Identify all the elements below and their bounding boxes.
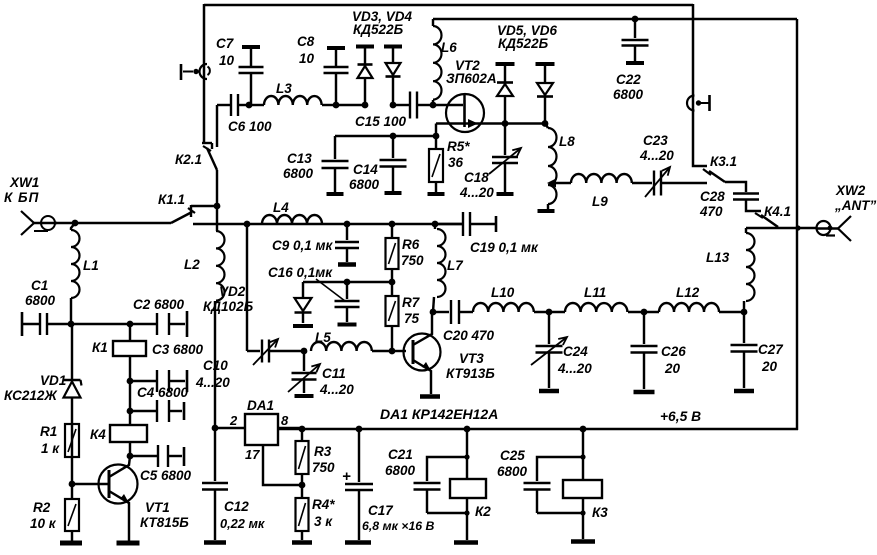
label pin 8 <box>281 413 289 428</box>
label R7 <box>402 295 421 326</box>
label DA1 <box>247 398 274 413</box>
svg-text:75: 75 <box>404 311 420 326</box>
svg-text:C7: C7 <box>216 36 235 51</box>
label К2 <box>475 504 491 519</box>
switch K1.1 blade <box>171 208 195 223</box>
node: C27/L13 tap <box>741 309 748 316</box>
ground: C11 <box>295 394 314 398</box>
label C8 <box>297 34 315 66</box>
svg-text:С19 0,1 мк: С19 0,1 мк <box>470 240 539 255</box>
capacitor C18 trimmer <box>489 123 521 192</box>
label C12 <box>220 499 265 531</box>
svg-text:„ANT”: „ANT” <box>834 198 876 213</box>
svg-text:750: 750 <box>312 460 335 475</box>
label VD5 VD6 <box>497 23 558 51</box>
node: R3/R4 junction <box>299 482 306 489</box>
wire: VT2 source rail <box>436 122 545 124</box>
svg-text:1 к: 1 к <box>41 441 60 456</box>
wire: L11 to L12 <box>628 311 659 313</box>
svg-text:750: 750 <box>401 253 424 268</box>
svg-text:R6: R6 <box>402 237 420 252</box>
zener VD1 <box>64 324 82 424</box>
capacitor C23 trimmer <box>645 167 670 197</box>
wire: R2 to ground <box>71 531 73 541</box>
ground: C12 <box>204 540 226 545</box>
label pin 2 <box>229 413 238 428</box>
node: C14 tap <box>390 133 397 140</box>
svg-text:L13: L13 <box>706 250 730 265</box>
svg-text:С28: С28 <box>700 189 725 204</box>
inductor L6 <box>433 19 442 105</box>
label VD2 <box>203 284 254 314</box>
svg-text:10: 10 <box>219 53 235 68</box>
svg-text:С26: С26 <box>661 344 686 359</box>
node: K-switch junction <box>214 203 221 210</box>
svg-text:C2 6800: C2 6800 <box>133 297 185 312</box>
node: VT1 base junction <box>69 481 76 488</box>
svg-text:L1: L1 <box>83 258 99 273</box>
svg-text:6800: 6800 <box>25 293 56 308</box>
label К3.1 <box>710 154 737 169</box>
wire: screen-box left rail (to K2.1 contact) <box>203 4 206 143</box>
transistor VT2 source arrow <box>468 119 478 128</box>
label C5 6800 <box>140 468 192 483</box>
label XW1 <box>9 175 39 190</box>
svg-text:10: 10 <box>299 51 315 66</box>
wire: VD1-R1-R2 string <box>71 457 73 499</box>
switch K1.1 contact bracket <box>191 205 217 217</box>
svg-text:К1: К1 <box>92 340 108 355</box>
wire: +6.5V top feed (L6 top to right drop) <box>433 18 797 20</box>
wire: C13/C14 rail <box>335 135 436 137</box>
svg-text:VT1: VT1 <box>145 500 170 515</box>
capacitor C10 trimmer <box>247 339 304 365</box>
svg-text:+6,5 В: +6,5 В <box>660 409 701 424</box>
node: L7/C19 tap <box>432 221 439 228</box>
svg-text:КД522Б: КД522Б <box>353 22 404 37</box>
node: K1 string top <box>127 321 134 328</box>
wire: base feed <box>392 350 406 352</box>
diode VD6 <box>536 64 555 123</box>
svg-text:С24: С24 <box>563 344 588 359</box>
node: VD6/L8 tap <box>542 120 549 127</box>
wire: C21 bottom bracket <box>427 512 467 514</box>
connector XW2 plug fork <box>817 216 851 241</box>
label L9 <box>592 194 608 209</box>
svg-text:36: 36 <box>448 155 464 170</box>
label VD1 <box>40 373 66 388</box>
label L2 <box>184 257 200 272</box>
label C27 <box>758 342 784 374</box>
capacitor C9 <box>335 224 359 265</box>
label КС212Ж <box>4 388 58 403</box>
transistor VT2 gate <box>433 104 463 106</box>
svg-text:КС212Ж: КС212Ж <box>4 388 58 403</box>
label C3 6800 <box>152 342 204 357</box>
wire: L12 to L13 <box>719 311 744 313</box>
node: VT2 gate node <box>430 102 437 109</box>
svg-text:L11: L11 <box>584 285 606 300</box>
wire: C28 to K4.1 contact <box>746 200 761 211</box>
label pin 17 <box>245 447 260 462</box>
node: K3 bottom tie <box>580 510 585 515</box>
node: C5/collector tap <box>127 453 134 460</box>
capacitor C3 end bar <box>186 370 189 392</box>
svg-text:С11: С11 <box>322 366 346 381</box>
label R5 <box>447 139 470 170</box>
label C14 <box>349 162 380 192</box>
svg-text:L2: L2 <box>184 257 200 272</box>
switch K2.1 contact hook <box>202 143 212 149</box>
label К4.1 <box>764 204 791 219</box>
wire: pin17 lead <box>263 445 299 485</box>
capacitor C28 <box>733 194 759 200</box>
capacitor C2 <box>157 313 185 335</box>
svg-text:С21: С21 <box>388 447 413 462</box>
label R2 <box>30 500 57 531</box>
svg-text:К2: К2 <box>475 504 491 519</box>
svg-text:20: 20 <box>761 359 778 374</box>
resistor R2 body <box>65 499 79 531</box>
svg-text:L10: L10 <box>491 285 515 300</box>
label C6 100 <box>228 119 272 134</box>
svg-text:К3: К3 <box>592 505 608 520</box>
label C18 <box>459 170 494 200</box>
inductor L8 <box>545 123 557 209</box>
label C20 470 <box>443 328 495 343</box>
wire: K3 feed <box>582 429 584 480</box>
capacitor C2 end bar <box>186 311 189 337</box>
label C19 <box>470 240 539 255</box>
wire: K2.1 to C6 (riser) <box>216 170 218 206</box>
capacitor C17 <box>345 429 373 540</box>
label C2 6800 <box>133 297 185 312</box>
wire: L10 to L11 <box>534 311 565 313</box>
label XW2 <box>835 183 866 198</box>
inductor L9 feed arrow <box>547 179 571 188</box>
wire: L9 to C23 <box>632 182 652 184</box>
svg-text:С17: С17 <box>368 503 394 518</box>
svg-text:ЗП602А: ЗП602А <box>446 71 497 86</box>
inductor L5 <box>311 342 392 351</box>
svg-text:VD2: VD2 <box>219 284 246 299</box>
wire: C25 bottom bracket <box>537 512 583 514</box>
wire: +6.5V right drop <box>796 19 798 430</box>
ground: C24 <box>539 389 559 394</box>
ground: VD2 <box>293 324 313 328</box>
svg-text:К4.1: К4.1 <box>764 204 791 219</box>
svg-text:C3 6800: C3 6800 <box>152 342 204 357</box>
svg-text:6,8 мк ×16 В: 6,8 мк ×16 В <box>362 519 435 533</box>
svg-text:L7: L7 <box>447 258 464 273</box>
wire: C10 drop <box>246 224 248 351</box>
label R6 <box>401 237 424 268</box>
svg-text:XW2: XW2 <box>835 183 866 198</box>
svg-text:С23: С23 <box>643 133 668 148</box>
wire: C25 top bracket <box>537 457 583 481</box>
svg-text:20: 20 <box>664 361 681 376</box>
svg-text:С9 0,1 мк: С9 0,1 мк <box>272 238 334 253</box>
svg-text:R3: R3 <box>314 444 332 459</box>
capacitor C27 <box>731 312 758 388</box>
wire: screen-box right rail (to K3.1 contact) <box>693 4 707 166</box>
label C17 <box>362 503 435 533</box>
svg-text:R7: R7 <box>402 295 421 310</box>
resistor R3 body <box>296 429 309 485</box>
wire: screen-box top rail <box>204 4 693 7</box>
svg-text:6800: 6800 <box>349 177 380 192</box>
svg-text:К4: К4 <box>90 427 106 442</box>
svg-text:C1: C1 <box>31 278 48 293</box>
svg-text:R2: R2 <box>33 500 51 515</box>
connector: screen-box input tap <box>181 64 210 80</box>
label L4 <box>273 200 289 215</box>
svg-text:R1: R1 <box>40 424 57 439</box>
svg-text:С10: С10 <box>203 358 228 373</box>
label R3 <box>312 444 335 475</box>
svg-text:L5: L5 <box>315 330 331 345</box>
node: C1/L1/VD1 junction <box>68 321 75 328</box>
label C4 6800 <box>137 385 189 400</box>
connector XW2 socket circle <box>817 221 836 236</box>
node: VT3 collector node <box>430 309 437 316</box>
label C13 <box>283 151 314 181</box>
label L12 <box>676 285 700 300</box>
transistor VT1 base bar <box>108 470 111 498</box>
label R1 <box>40 424 60 456</box>
ground: R4 <box>292 540 312 545</box>
node: K2 rail tap <box>464 426 471 433</box>
label К3 <box>592 505 608 520</box>
label C22 <box>613 72 644 102</box>
wire: +6.5V bottom rail <box>278 428 798 430</box>
node: DA1 input tap <box>212 425 219 432</box>
ground: L8 <box>538 209 555 213</box>
svg-text:DA1: DA1 <box>247 398 274 413</box>
svg-text:К3.1: К3.1 <box>710 154 737 169</box>
node: C7 tap <box>246 102 253 109</box>
transistor VT1 emitter <box>109 491 129 541</box>
svg-text:С22: С22 <box>616 72 641 87</box>
svg-text:8: 8 <box>281 413 289 428</box>
transistor VT2 channel <box>463 94 466 127</box>
label ANT <box>834 198 876 213</box>
svg-text:3 к: 3 к <box>314 514 333 529</box>
svg-text:С14: С14 <box>353 162 378 177</box>
svg-text:К1.1: К1.1 <box>158 192 185 207</box>
wire: K3.1 to C28 <box>725 182 746 192</box>
node: C9 tap <box>344 221 351 228</box>
capacitor C19 end bar <box>495 216 498 232</box>
capacitor C4 end bar <box>183 402 186 420</box>
wire: C6 riser <box>216 105 218 147</box>
node: C22 tap on top feed <box>632 16 639 23</box>
wire: K3 ground lead <box>582 498 584 539</box>
node: R3 rail tap <box>299 426 306 433</box>
wire: bias rail <box>303 281 392 283</box>
label C26 <box>661 344 686 376</box>
svg-text:4...20: 4...20 <box>639 148 674 163</box>
capacitor C8 <box>324 48 349 105</box>
node: C26 tap <box>641 309 648 316</box>
capacitor C5 end bar <box>183 447 186 466</box>
svg-text:С12: С12 <box>224 499 249 514</box>
label VT1 <box>140 500 189 530</box>
svg-text:4...20: 4...20 <box>459 185 494 200</box>
label C21 <box>385 447 416 478</box>
label L11 <box>584 285 606 300</box>
capacitor C22 <box>622 19 649 61</box>
label C15 100 <box>355 114 407 129</box>
relay coil K3 <box>563 480 602 498</box>
relay coil K2 <box>450 479 486 498</box>
svg-text:КТ913Б: КТ913Б <box>446 366 495 381</box>
ground: C16 <box>338 323 357 327</box>
capacitor C4 <box>130 400 182 422</box>
node: C10 branch <box>244 221 251 228</box>
label L7 <box>447 258 464 273</box>
label C24 <box>557 344 592 376</box>
svg-text:L9: L9 <box>592 194 608 209</box>
node: C4 tap <box>127 408 134 415</box>
capacitor C13 <box>322 136 349 192</box>
ground: C18 <box>497 192 514 196</box>
switch K4.1 blade <box>755 213 778 227</box>
wire: base wire <box>72 483 109 485</box>
svg-text:10 к: 10 к <box>30 516 57 531</box>
connector: screen-box output tap <box>687 95 709 111</box>
node: VD3 tap <box>362 102 369 109</box>
IC DA1 box <box>245 414 278 445</box>
capacitor C12 <box>202 428 228 540</box>
label VT3 <box>446 351 495 381</box>
node: K2 bottom tie <box>464 510 469 515</box>
capacitor C24 trimmer <box>531 312 567 388</box>
capacitor C26 <box>631 312 658 389</box>
node: C21 top tie <box>464 454 469 459</box>
transistor VT3 base bar <box>412 340 415 364</box>
capacitor C16 <box>335 282 360 322</box>
svg-text:17: 17 <box>245 447 260 462</box>
label C9 <box>272 238 334 253</box>
svg-text:4...20: 4...20 <box>557 361 592 376</box>
label К2.1 <box>175 152 202 167</box>
wire: main line K1.1 to C19 <box>193 223 463 225</box>
label C28 <box>699 189 725 219</box>
label C23 <box>639 133 674 163</box>
connector XW1 socket circle <box>34 216 55 231</box>
node: K3 rail tap <box>580 426 587 433</box>
label К БП <box>4 190 39 205</box>
ground: VT1 emitter <box>117 541 140 546</box>
wire: source rail to R5 <box>435 124 437 137</box>
transistor VT1 circle <box>99 465 138 504</box>
transistor VT3 collector <box>413 312 432 345</box>
svg-text:470: 470 <box>699 204 723 219</box>
wire: K4.1 to XW2 <box>746 227 817 229</box>
label C7 <box>216 36 235 68</box>
inductor L7 <box>433 229 446 312</box>
ground: VT3 emitter <box>420 394 440 399</box>
ground: C17 <box>345 540 371 545</box>
diode VD4 <box>384 46 402 105</box>
node: R6 tap <box>389 221 396 228</box>
label C11 <box>319 366 354 397</box>
svg-text:К2.1: К2.1 <box>175 152 202 167</box>
node: C3 tap <box>127 378 134 385</box>
capacitor C19 <box>435 212 495 236</box>
node: feed crossing <box>795 225 800 230</box>
node: C16 tap <box>344 279 351 286</box>
svg-text:C5 6800: C5 6800 <box>140 468 192 483</box>
svg-text:L3: L3 <box>276 81 292 96</box>
resistor R6 body <box>386 224 399 282</box>
label L6 <box>441 40 457 55</box>
ground: K2 <box>454 540 478 545</box>
ground: C13 <box>327 192 344 196</box>
label L3 <box>276 81 292 96</box>
resistor R4 body <box>296 485 309 540</box>
label L1 <box>83 258 99 273</box>
capacitor C3 <box>130 370 185 392</box>
label R4 <box>312 497 335 529</box>
label C10 <box>195 358 230 390</box>
svg-text:С15 100: С15 100 <box>355 114 407 129</box>
capacitor C11 trimmer <box>288 351 320 393</box>
node: C25 top tie <box>580 454 585 459</box>
connector XW1 plug fork <box>21 211 57 235</box>
node: L1 tap <box>72 220 79 227</box>
wire: K2 feed <box>466 429 468 479</box>
svg-text:0,22 мк: 0,22 мк <box>220 516 265 531</box>
inductor L1 <box>71 223 80 324</box>
node: C24 tap <box>546 309 553 316</box>
label L13 <box>706 250 730 265</box>
svg-text:КТ815Б: КТ815Б <box>140 515 189 530</box>
label C1 <box>25 278 56 308</box>
diode VD2 <box>295 282 312 323</box>
svg-text:К БП: К БП <box>4 190 39 205</box>
resistor R1 <box>71 424 73 457</box>
node: VD4 tap <box>390 102 397 109</box>
label +6.5V <box>660 409 701 424</box>
diode VD3 <box>356 46 374 105</box>
ground: R2 <box>60 541 82 546</box>
inductor L9 <box>571 174 632 183</box>
svg-text:L8: L8 <box>559 134 575 149</box>
label VD3 VD4 <box>352 9 413 37</box>
capacitor C6 <box>217 94 249 116</box>
node: R6/R7 tap <box>389 279 396 286</box>
relay coil K1 <box>113 324 146 381</box>
svg-text:С16 0,1мк: С16 0,1мк <box>268 265 333 280</box>
label L8 <box>559 134 575 149</box>
svg-text:C8: C8 <box>297 34 315 49</box>
svg-text:L4: L4 <box>273 200 289 215</box>
resistor R5 body <box>429 136 443 192</box>
capacitor C21 <box>414 483 441 513</box>
svg-text:4...20: 4...20 <box>195 375 230 390</box>
ground: C26 <box>634 390 655 395</box>
switch K2.1 blade <box>203 146 217 170</box>
svg-text:L12: L12 <box>676 285 700 300</box>
svg-text:L6: L6 <box>441 40 457 55</box>
node: C17 tap <box>356 426 363 433</box>
capacitor C7 <box>239 47 264 105</box>
ground: C22 <box>626 61 644 65</box>
capacitor C15 <box>410 92 433 119</box>
label C25 <box>497 448 528 479</box>
